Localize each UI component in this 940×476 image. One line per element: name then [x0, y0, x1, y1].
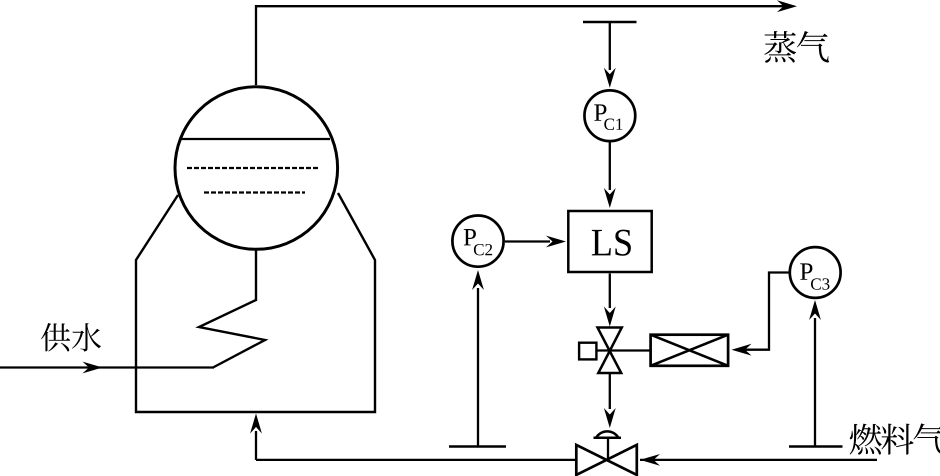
- signal line PC3 to converter: [743, 273, 791, 350]
- signal line tap to PC1: [609, 22, 611, 70]
- boiler steam drum: [175, 87, 338, 250]
- signal line PC1 to LS: [609, 142, 611, 190]
- fuel line riser to furnace: [255, 431, 257, 460]
- signal line three-way valve to control valve actuator: [609, 373, 611, 409]
- converter diagonal 2: [651, 335, 729, 366]
- converter box: [651, 335, 729, 366]
- low selector LS box: [568, 211, 651, 272]
- fuel gas control valve: [576, 445, 637, 475]
- fuel gas line left segment: [256, 459, 576, 461]
- furnace body: [136, 193, 375, 412]
- fuel pressure tap bar right: [789, 445, 843, 447]
- steam pressure tap bar: [583, 21, 637, 23]
- three-way valve actuator square: [579, 343, 596, 360]
- actuator stem: [607, 438, 609, 460]
- three-way solenoid valve: [598, 328, 622, 352]
- steam pipe: [256, 6, 789, 85]
- fuel gas line right segment: [640, 459, 877, 461]
- signal line LS to three-way valve: [609, 274, 611, 309]
- steam label 蒸气: [764, 31, 796, 63]
- heating coil zigzag: [199, 250, 265, 368]
- pressure controller PC3: [790, 247, 841, 298]
- signal line tap to PC2: [477, 288, 479, 447]
- water level line: [180, 138, 330, 140]
- pressure controller PC1: [584, 90, 635, 141]
- water level dashed line 2: [204, 191, 305, 193]
- feed water line: [0, 366, 214, 368]
- signal line tap to PC3: [814, 318, 816, 447]
- signal line PC2 to LS: [505, 240, 550, 242]
- fuel pressure tap bar left: [449, 445, 506, 447]
- water level dashed line 1: [187, 167, 320, 169]
- line valve waist to converter: [596, 349, 650, 351]
- pressure controller PC2: [452, 216, 503, 267]
- feed water label 供水: [41, 323, 70, 351]
- control valve actuator dome: [596, 431, 619, 437]
- fuel gas label 燃料气: [850, 424, 882, 455]
- converter diagonal 1: [651, 335, 729, 366]
